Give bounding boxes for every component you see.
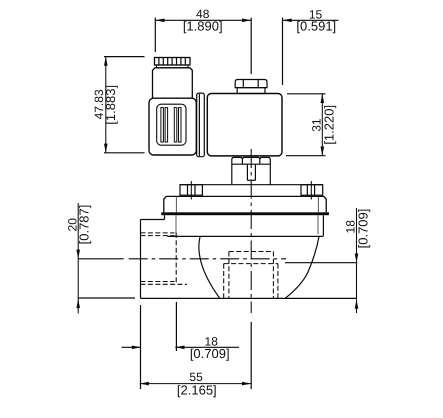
- inlet boss: [141, 220, 165, 299]
- coil top nut: [235, 80, 267, 94]
- washer between connector and coil: [197, 93, 205, 157]
- svg-text:[1.883]: [1.883]: [103, 85, 118, 125]
- svg-text:[0.591]: [0.591]: [296, 19, 336, 34]
- vent slot 2: [165, 108, 168, 142]
- right waist curve: [285, 237, 319, 299]
- hidden inlet thread lines: [141, 233, 188, 285]
- solenoid coil: [207, 94, 282, 156]
- body upper block: [165, 215, 324, 237]
- dimension 15 top: [283, 7, 339, 85]
- vent slot 4: [179, 108, 182, 142]
- pilot tube: [247, 164, 255, 180]
- right cover bolt: [301, 181, 323, 200]
- connector neck band: [157, 65, 189, 68]
- svg-text:[1.890]: [1.890]: [183, 19, 223, 34]
- connector inner plate: [157, 104, 186, 145]
- svg-text:[1.220]: [1.220]: [321, 105, 336, 145]
- dimension 48 top: [155, 7, 251, 74]
- connector upper body: [153, 68, 193, 98]
- vent slot 3: [174, 108, 177, 142]
- connector ribbed cap: [155, 58, 191, 66]
- svg-text:[0.709]: [0.709]: [355, 209, 370, 249]
- vent slot 1: [161, 108, 164, 142]
- left cover bolt: [180, 181, 202, 200]
- dimension 55 bottom: [140, 322, 252, 397]
- svg-text:[0.787]: [0.787]: [76, 205, 91, 245]
- svg-text:[2.165]: [2.165]: [177, 382, 217, 397]
- dimension 18 bottom: [122, 302, 240, 389]
- cover plate: [164, 196, 326, 212]
- connector main body: [149, 98, 196, 155]
- lower hex nut under coil: [232, 157, 270, 164]
- armature tube block: [232, 164, 270, 185]
- dimension 47.83 left: [92, 57, 145, 153]
- hidden bottom outlet port: [224, 252, 278, 299]
- cover bridge line: [180, 184, 323, 186]
- flange band (thick): [161, 212, 329, 215]
- vertical centerline: [250, 149, 252, 313]
- dimension 20 left: [66, 203, 136, 314]
- body bottom edge: [141, 297, 358, 299]
- dimension 31 right of coil: [286, 94, 336, 156]
- dimension 18 right: [285, 208, 370, 313]
- horizontal centerline: [129, 258, 286, 260]
- left waist curve: [199, 237, 220, 298]
- svg-text:[0.709]: [0.709]: [190, 346, 230, 361]
